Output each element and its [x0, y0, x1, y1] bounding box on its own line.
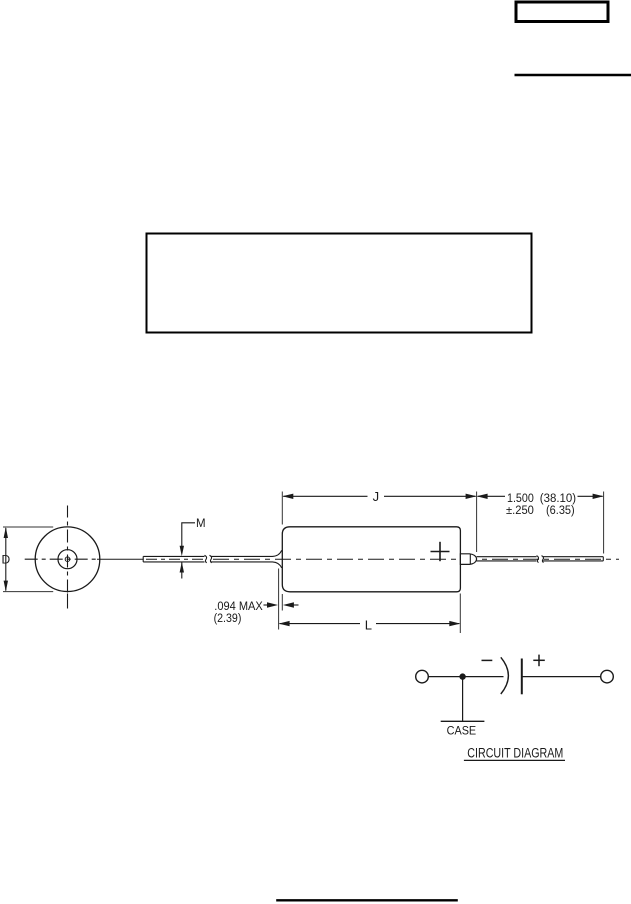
empty note box (center) — [147, 234, 532, 333]
right terminal — [601, 670, 614, 683]
svg-text:.094 MAX: .094 MAX — [214, 601, 263, 613]
extension line at lead end — [603, 492, 605, 554]
polarity plus mark — [431, 542, 450, 561]
J extension line right — [476, 492, 478, 553]
svg-text:(6.35): (6.35) — [546, 505, 575, 517]
vertical centerline — [67, 506, 69, 518]
wire left — [428, 676, 503, 678]
D dimension extension line top — [3, 526, 53, 528]
junction dot — [459, 673, 465, 679]
minus sign — [482, 659, 493, 661]
break squiggle — [205, 555, 207, 563]
svg-text:CASE: CASE — [447, 725, 477, 737]
right break squiggle — [537, 556, 539, 563]
lead tube outline — [143, 555, 272, 563]
svg-text:L: L — [365, 618, 372, 633]
D dimension line with arrows — [5, 528, 7, 591]
wire from end view — [97, 558, 144, 560]
plus sign — [533, 655, 545, 667]
J dimension line — [283, 495, 475, 497]
underline — [464, 759, 565, 761]
right lead — [477, 556, 604, 563]
left terminal — [416, 670, 429, 683]
svg-text:J: J — [373, 489, 380, 504]
svg-text:1.500: 1.500 — [507, 493, 534, 505]
M dimension leader and arrows — [182, 523, 195, 579]
capacitor end view outer circle — [35, 527, 100, 592]
svg-text:M: M — [196, 518, 206, 530]
header rule line — [515, 74, 631, 76]
straight positive plate — [521, 659, 523, 695]
svg-text:(2.39): (2.39) — [214, 613, 242, 625]
D dimension extension line bottom — [3, 591, 53, 593]
lead centerline dashes — [146, 558, 203, 560]
wire right — [522, 676, 601, 678]
end view lead circle — [65, 557, 70, 562]
main centerline dashes — [213, 558, 619, 560]
arrow pointing left — [293, 604, 299, 606]
svg-text:±.250: ±.250 — [506, 505, 534, 517]
end view inner circle — [58, 550, 77, 569]
horizontal centerline — [25, 558, 100, 560]
curved negative plate — [501, 657, 509, 694]
dimension line with arrows — [478, 495, 603, 497]
arrow pointing right — [264, 604, 269, 606]
L dimension line — [280, 623, 460, 625]
L extension line right — [459, 594, 461, 634]
title block box (empty, top right) — [516, 2, 608, 22]
right end seal bullet — [460, 554, 476, 565]
extension line (weld point) — [278, 569, 280, 630]
wire to case — [462, 677, 464, 722]
footer rule line — [276, 899, 458, 901]
body outline — [282, 527, 460, 592]
svg-text:CIRCUIT DIAGRAM: CIRCUIT DIAGRAM — [467, 745, 563, 760]
case plate line — [441, 720, 485, 722]
J extension line left — [281, 492, 283, 525]
svg-text:(38.10): (38.10) — [540, 493, 576, 505]
weld trumpet at left — [273, 550, 282, 568]
svg-text:D: D — [2, 552, 11, 566]
extension line (body face, below) — [281, 594, 283, 611]
